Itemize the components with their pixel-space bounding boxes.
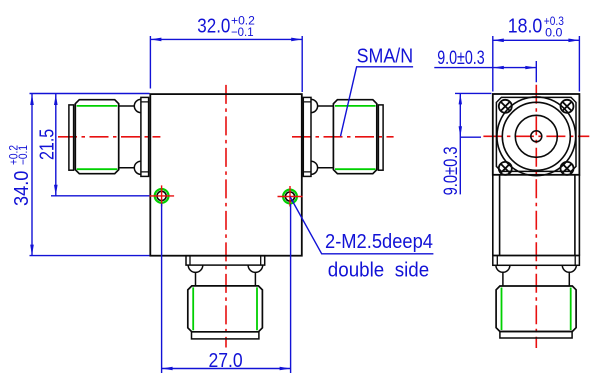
screw hole left — [155, 189, 169, 203]
left connector green thread lines — [77, 106, 118, 169]
flange middle circle — [515, 115, 557, 157]
svg-text:2-M2.5deep4: 2-M2.5deep4 — [325, 231, 433, 253]
svg-text:34.0: 34.0 — [11, 171, 33, 206]
dimension 9.0±0.3 horizontal — [434, 61, 536, 82]
side bottom connector hex body — [496, 286, 576, 332]
svg-text:18.0: 18.0 — [508, 15, 543, 37]
svg-text:9.0±0.3: 9.0±0.3 — [441, 147, 462, 196]
side bottom connector bumps — [496, 265, 576, 272]
svg-text:−0.1: −0.1 — [16, 145, 30, 165]
right connector cap — [378, 105, 383, 170]
bottom connector bumps — [188, 265, 263, 272]
flange big circle inner — [502, 102, 570, 170]
svg-text:−0.1: −0.1 — [231, 25, 254, 39]
bottom connector cap — [192, 332, 259, 339]
side bottom connector neck — [503, 272, 569, 286]
right connector hex body — [333, 100, 376, 174]
bottom connector green thread lines — [193, 287, 257, 330]
side body below flange — [493, 175, 580, 256]
svg-text:9.0±0.3: 9.0±0.3 — [437, 48, 485, 69]
dimension 9.0±0.3 vertical — [455, 93, 491, 194]
side bottom connector cap — [500, 332, 572, 339]
right connector green thread lines — [335, 106, 376, 169]
svg-text:21.5: 21.5 — [37, 129, 59, 160]
flange big circle outer — [497, 97, 576, 176]
main body outline — [150, 94, 301, 256]
dimension 21.5 — [51, 94, 150, 196]
screw hole right — [283, 190, 297, 204]
side bottom connector green thread lines — [502, 288, 571, 331]
dimension 34.0 — [30, 94, 150, 256]
centerline horizontal right connector — [292, 136, 394, 138]
svg-text:double side: double side — [328, 260, 429, 282]
flange screw holes with X — [499, 100, 574, 175]
side flange inner square — [496, 97, 576, 171]
side bottom connector plate — [493, 256, 580, 266]
centerline horizontal left connector — [58, 136, 160, 138]
bottom connector hex body — [188, 286, 263, 332]
bottom connector flange plate — [186, 256, 265, 265]
centerline vertical (side view axis) — [535, 85, 537, 348]
left connector cap — [69, 105, 74, 170]
right connector neck — [318, 106, 334, 168]
dimension 27.0 — [162, 204, 291, 374]
left connector bumps — [134, 99, 141, 174]
svg-text:27.0: 27.0 — [209, 350, 243, 372]
dimension 18.0 — [493, 36, 580, 92]
centerline vertical (front view axis) — [225, 85, 227, 348]
right connector bumps — [311, 99, 318, 174]
label 2-M2.5deep4 double side with leader — [290, 197, 433, 254]
svg-text:32.0: 32.0 — [197, 16, 230, 38]
svg-text:0.0: 0.0 — [545, 26, 563, 40]
dimension 32.0 — [150, 36, 302, 92]
centerline horizontal (side view axis) — [483, 135, 589, 137]
side flange outer square — [493, 94, 580, 175]
left connector neck — [119, 106, 135, 168]
left connector hex body — [75, 100, 118, 174]
svg-text:SMA/N: SMA/N — [357, 46, 414, 68]
flange small circle — [531, 131, 542, 142]
left connector flange plate — [141, 97, 149, 176]
right connector flange plate — [303, 97, 311, 176]
bottom connector neck — [196, 272, 256, 286]
